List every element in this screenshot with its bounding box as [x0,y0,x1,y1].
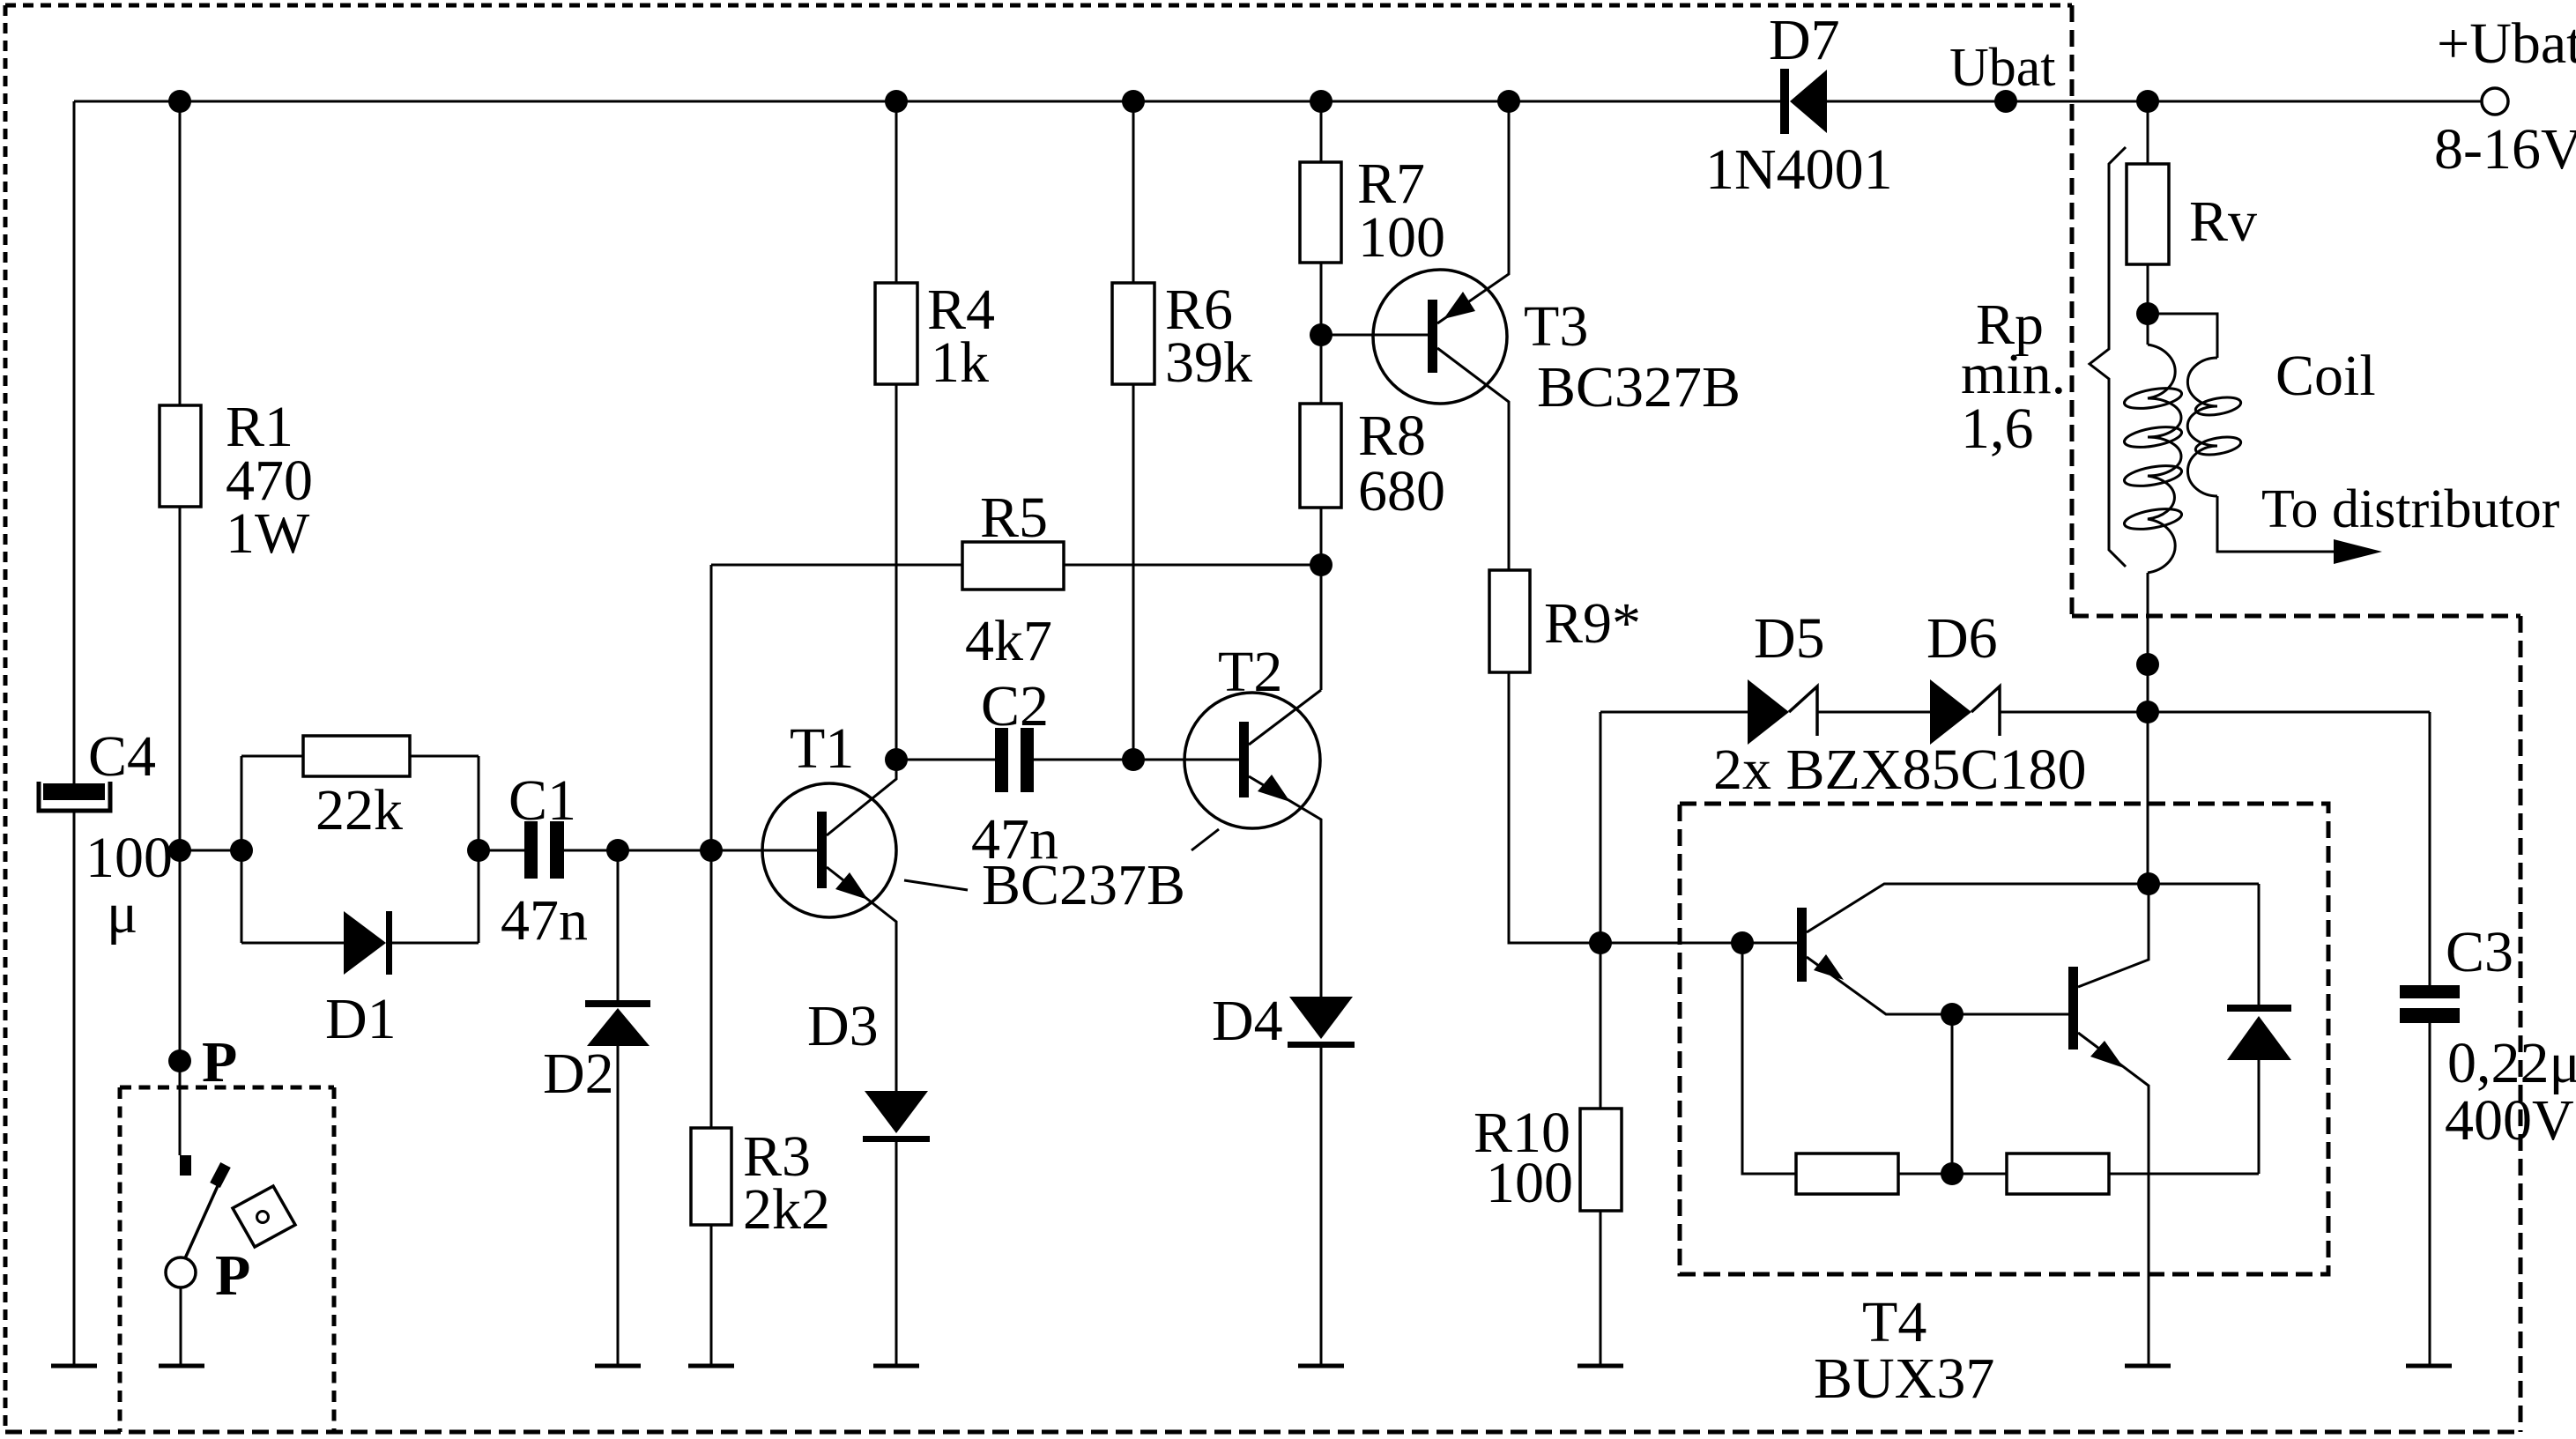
svg-text:C3: C3 [2446,920,2513,984]
svg-text:1k: 1k [931,330,989,395]
svg-text:D1: D1 [325,987,397,1051]
svg-text:39k: 39k [1165,330,1252,395]
svg-text:T3: T3 [1524,294,1588,359]
svg-text:400V: 400V [2445,1088,2574,1153]
svg-text:To distributor: To distributor [2261,479,2560,539]
svg-text:μ: μ [107,881,137,946]
svg-text:C1: C1 [509,768,576,833]
svg-text:2x BZX85C180: 2x BZX85C180 [1713,738,2087,802]
svg-text:R9*: R9* [1544,591,1641,656]
svg-text:T2: T2 [1218,640,1282,704]
svg-text:1N4001: 1N4001 [1705,137,1893,202]
svg-text:4k7: 4k7 [965,609,1052,673]
svg-text:Coil: Coil [2275,344,2376,408]
svg-text:D6: D6 [1926,606,1998,671]
svg-text:D2: D2 [543,1042,614,1106]
svg-text:D7: D7 [1769,8,1840,72]
svg-text:680: 680 [1358,459,1445,523]
svg-text:1,6: 1,6 [1961,397,2034,461]
svg-text:BC327B: BC327B [1537,355,1741,419]
svg-text:P: P [215,1243,250,1308]
svg-text:R5: R5 [980,486,1048,550]
svg-text:47n: 47n [501,888,588,953]
svg-text:D4: D4 [1212,989,1283,1053]
svg-text:BUX37: BUX37 [1814,1346,1994,1411]
svg-text:C4: C4 [88,724,156,789]
svg-text:D5: D5 [1754,606,1825,671]
svg-text:BC237B: BC237B [982,853,1185,917]
svg-text:C2: C2 [981,674,1049,738]
svg-text:2k2: 2k2 [743,1177,830,1242]
svg-text:Ubat: Ubat [1949,38,2056,98]
svg-text:T1: T1 [790,716,854,781]
svg-text:100: 100 [1486,1151,1573,1215]
svg-text:Rv: Rv [2189,189,2257,254]
svg-text:1W: 1W [226,501,310,566]
svg-text:T4: T4 [1862,1290,1926,1354]
svg-text:P: P [202,1030,237,1094]
svg-text:22k: 22k [316,778,403,842]
svg-text:0,22μ: 0,22μ [2447,1031,2576,1095]
svg-text:+Ubat: +Ubat [2437,11,2576,76]
svg-text:D3: D3 [807,994,879,1058]
svg-text:100: 100 [1358,205,1445,270]
svg-text:8-16V: 8-16V [2434,117,2576,182]
